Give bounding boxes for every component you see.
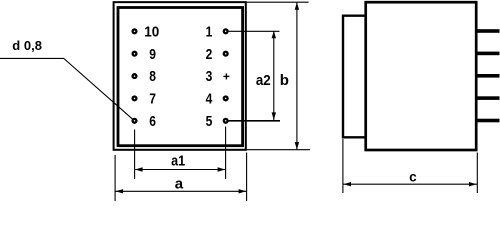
pin number 6: [149, 113, 156, 130]
dimension line c with arrows: [343, 182, 477, 186]
pin number 4: [206, 91, 213, 108]
pin 5: [223, 118, 229, 124]
transformer top-view inner case outline: [118, 8, 243, 146]
svg-text:d 0,8: d 0,8: [12, 38, 42, 53]
pin number 10: [144, 23, 159, 40]
pin 9: [131, 51, 137, 57]
side-view pin 3 lead: [477, 74, 500, 78]
pin number 7: [149, 91, 156, 108]
svg-text:2: 2: [206, 46, 213, 63]
pin 1: [223, 28, 229, 34]
dimension a1 extension line below pin 6: [134, 130, 136, 180]
pin number 5: [206, 113, 213, 130]
svg-text:a: a: [175, 176, 184, 193]
svg-text:8: 8: [149, 68, 156, 85]
svg-text:3: 3: [206, 68, 213, 85]
pin 4: [223, 95, 229, 101]
side-view pin 2 lead: [477, 52, 500, 56]
dimension a2 extension line from pin 1: [228, 30, 280, 32]
pin 6: [131, 118, 137, 124]
dimension line a with arrows: [115, 189, 247, 193]
svg-text:5: 5: [206, 113, 213, 130]
label b: [280, 72, 289, 89]
transformer side-view body outline: [366, 2, 477, 150]
pin number 1: [206, 23, 213, 40]
svg-text:6: 6: [149, 113, 156, 130]
pin number 8: [149, 68, 156, 85]
leader line for label d 0,8 to pin 6: [0, 58, 134, 120]
transformer side-view mounting flange outline: [343, 16, 366, 138]
pin number 3: [206, 68, 213, 85]
dimension c extension line left: [342, 139, 344, 193]
dimension line a2 with arrows: [272, 31, 276, 121]
dimension b extension line top: [247, 1, 309, 3]
pin number 2: [206, 46, 213, 63]
side-view pin 5 lead: [477, 119, 500, 123]
pin number 9: [149, 46, 156, 63]
label a: [175, 176, 184, 193]
dimension b extension line bottom: [247, 149, 310, 151]
svg-text:a2: a2: [256, 72, 271, 89]
label a1: [171, 153, 185, 170]
dimension line b with arrows: [295, 2, 299, 150]
svg-text:1: 1: [206, 23, 213, 40]
dimension c extension line right: [476, 153, 478, 194]
pin 2: [223, 51, 229, 57]
dimension a2 extension line from pin 5: [228, 120, 280, 122]
pin 8: [131, 73, 137, 79]
dimension line a1 with arrows: [135, 167, 226, 171]
transformer top-view outer case outline: [114, 2, 246, 150]
pin 3 polarity cross: [223, 73, 229, 79]
label d 0,8 (pin diameter): [12, 38, 42, 53]
dimension a extension line right: [246, 153, 248, 202]
svg-text:10: 10: [144, 23, 159, 40]
dimension a1 extension line below pin 5: [225, 127, 227, 180]
pin 7: [131, 95, 137, 101]
side-view pin 1 lead: [477, 29, 500, 33]
svg-text:7: 7: [149, 91, 156, 108]
svg-text:a1: a1: [171, 153, 185, 170]
pin 10: [131, 28, 137, 34]
label c: [409, 169, 417, 184]
label a2: [256, 72, 271, 89]
dimension a extension line left: [114, 155, 116, 201]
side-view pin 4 lead: [477, 96, 500, 100]
svg-text:c: c: [409, 169, 417, 184]
svg-text:4: 4: [206, 91, 213, 108]
svg-text:b: b: [280, 72, 289, 89]
svg-text:9: 9: [149, 46, 156, 63]
